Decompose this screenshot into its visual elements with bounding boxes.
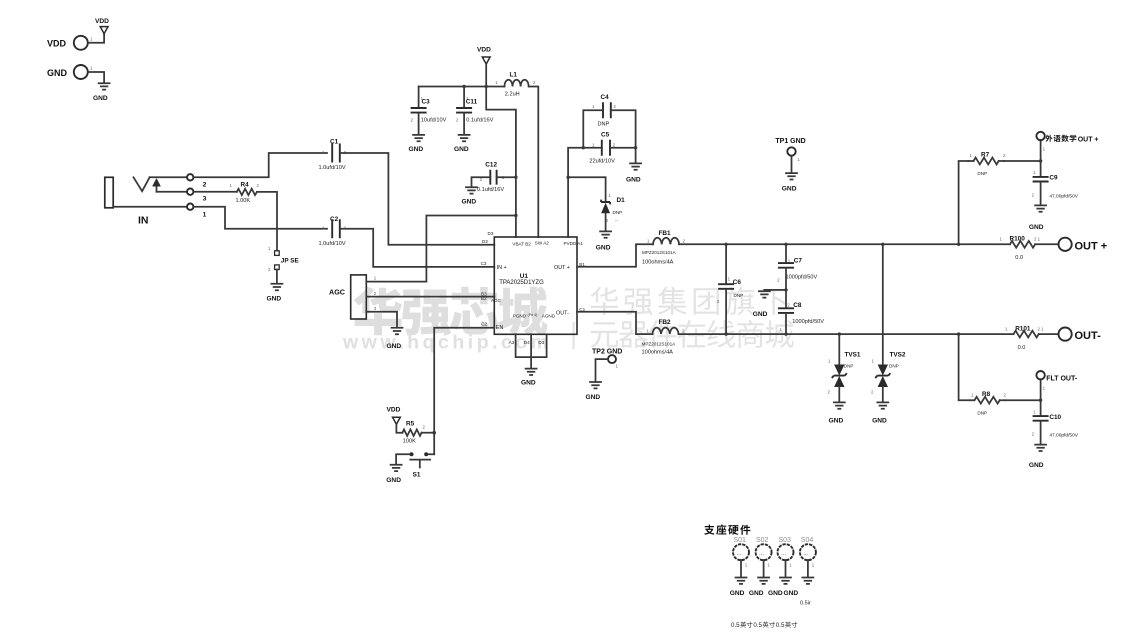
svg-text:D2: D2: [482, 239, 488, 244]
svg-text:C2: C2: [481, 321, 487, 326]
svg-text:S04: S04: [801, 537, 814, 544]
diode D1: [601, 193, 625, 231]
wire rail down to R8 row: [959, 334, 970, 400]
svg-text:47.00pfd/50V: 47.00pfd/50V: [1049, 194, 1078, 200]
svg-text:FLT OUT-: FLT OUT-: [1046, 375, 1078, 382]
wire GND terminal to ground: [88, 72, 104, 83]
svg-text:...: ...: [737, 551, 742, 557]
svg-text:GND: GND: [454, 146, 469, 153]
node C6 bottom: [724, 332, 727, 335]
terminal VDD (J-VDD): [47, 36, 93, 50]
svg-text:B2: B2: [481, 296, 487, 301]
svg-text:DNP: DNP: [889, 364, 899, 369]
power VDD (boost input): [477, 47, 491, 65]
wire R4 to JP SE (crosses C2 row): [257, 192, 277, 250]
node C4/C5 right: [634, 146, 637, 149]
svg-text:PVDD A1: PVDD A1: [564, 241, 584, 246]
connector AGC header: [329, 275, 377, 319]
jack contact pin 3: [187, 189, 193, 195]
ground (TVS2): [872, 402, 888, 424]
ground (TVS1): [829, 402, 845, 424]
svg-text:22ufd/10V: 22ufd/10V: [589, 159, 615, 165]
svg-text:C9: C9: [1049, 175, 1058, 182]
standoff hardware title 支座硬件: [704, 525, 750, 535]
svg-text:D1: D1: [617, 197, 626, 204]
svg-text:PGND: PGND: [513, 314, 527, 319]
switch S1: [410, 452, 435, 478]
svg-text:VDD: VDD: [477, 47, 491, 54]
watermark 元器件在线商城: [591, 320, 794, 348]
svg-text:S1: S1: [413, 472, 421, 479]
svg-text:C11: C11: [466, 99, 478, 106]
wire C4 left leg: [583, 110, 603, 147]
capacitor C12: [477, 161, 505, 193]
svg-text:IN +: IN +: [497, 265, 507, 271]
ground (top-left terminal): [93, 83, 110, 102]
svg-text:2 1: 2 1: [1038, 327, 1045, 332]
svg-text:1.0ufd/10V: 1.0ufd/10V: [319, 241, 346, 247]
svg-text:DNP: DNP: [734, 293, 744, 298]
svg-text:GND: GND: [596, 244, 611, 251]
svg-text:S03: S03: [779, 537, 792, 544]
svg-text:D3: D3: [538, 340, 544, 345]
terminal FLT OUT+: [1036, 132, 1098, 161]
svg-text:C12: C12: [485, 161, 497, 168]
node VBAT/AGC pullup: [514, 214, 517, 217]
svg-text:GND: GND: [386, 477, 401, 484]
wire S1 left to ground: [396, 454, 409, 464]
svg-text:AGC: AGC: [329, 288, 345, 297]
node OUT- rail / R8 branch: [957, 332, 960, 335]
wire VDD rail: [419, 86, 505, 88]
svg-text:C8: C8: [793, 302, 802, 309]
svg-text:0.0: 0.0: [1015, 255, 1023, 261]
ground (C3): [409, 135, 425, 153]
resistor R100: [959, 236, 1059, 262]
wire OUT- to FB2: [577, 312, 652, 334]
svg-text:1.00K: 1.00K: [236, 198, 251, 204]
svg-text:C10: C10: [1049, 414, 1061, 421]
capacitor C5: [589, 132, 615, 165]
svg-text:VDD: VDD: [47, 39, 67, 49]
svg-text:100K: 100K: [403, 439, 416, 445]
wire EN to R5/S1: [434, 328, 494, 455]
svg-text:IN: IN: [138, 215, 149, 227]
svg-text:C3: C3: [422, 99, 431, 106]
power VDD (top-left): [95, 18, 109, 34]
terminal FLT OUT-: [1036, 371, 1077, 400]
wire C1 to chip IN- (net step down): [340, 153, 495, 245]
wire TVS1 stem: [838, 334, 840, 364]
wire R7 to FLT OUT+ node: [1004, 160, 1041, 162]
svg-text:2.2uH: 2.2uH: [505, 91, 520, 97]
node FLT OUT-: [1039, 399, 1042, 402]
svg-text:1000pfd/50V: 1000pfd/50V: [792, 319, 824, 325]
jack detect arrow: [156, 186, 158, 192]
svg-text:0.5: 0.5: [776, 622, 785, 629]
node rail junction C11: [462, 85, 465, 88]
svg-text:A3: A3: [509, 340, 515, 345]
terminal OUT+: [1059, 238, 1108, 253]
watermark 华强集团旗下: [590, 287, 788, 315]
capacitor C10: [1032, 400, 1079, 444]
svg-text:MPZ2012S101A: MPZ2012S101A: [642, 342, 677, 347]
svg-text:GND: GND: [872, 418, 887, 425]
svg-text:GND: GND: [730, 590, 745, 597]
svg-text:GND: GND: [626, 176, 641, 183]
svg-text:TPA2025D1YZG: TPA2025D1YZG: [499, 280, 544, 286]
wire TP1 to ground: [791, 156, 793, 173]
test point TP1 GND: [775, 138, 805, 162]
power VDD (EN pullup): [387, 407, 401, 425]
svg-text:R5: R5: [406, 421, 415, 428]
jack contact pin 1: [187, 204, 193, 210]
svg-text:C7: C7: [794, 258, 803, 265]
svg-text:JP SE: JP SE: [281, 257, 300, 264]
wire TVS2 stem (crosses OUT- rail): [882, 244, 884, 364]
svg-text:D4: D4: [524, 340, 530, 345]
jack switch contact V: [134, 177, 150, 191]
capacitor C1: [319, 139, 347, 172]
svg-text:C4: C4: [601, 94, 610, 101]
wire AGC pin2 to chip: [366, 296, 494, 298]
wire C12 left to ground: [472, 177, 491, 187]
watermark divider: [573, 322, 575, 349]
svg-text:1: 1: [203, 211, 207, 218]
jumper JP SE: [268, 246, 300, 272]
standoff S04: [784, 537, 816, 597]
svg-text:GND: GND: [267, 296, 282, 303]
terminal OUT-: [1059, 328, 1102, 343]
node PVDD / D1 tap: [566, 176, 569, 179]
svg-text:OUT-: OUT-: [1075, 330, 1102, 342]
resistor R101: [959, 325, 1059, 351]
node FLT OUT+: [1039, 159, 1042, 162]
TVS diode TVS1: [828, 351, 861, 402]
svg-text:...: ...: [803, 551, 808, 557]
wire R5 to EN line: [422, 432, 435, 434]
wire AGC pin3 to ground: [366, 312, 397, 328]
node C7/C8 gnd tap: [784, 288, 787, 291]
svg-text:FB1: FB1: [659, 230, 672, 237]
ground (U1): [521, 369, 537, 387]
svg-text:2: 2: [203, 182, 207, 189]
wire FB2 output rail: [679, 333, 959, 335]
wire C4 right leg: [611, 110, 636, 147]
svg-text:VDD: VDD: [95, 18, 109, 25]
TVS diode TVS2: [871, 351, 906, 402]
resistor R8: [970, 391, 1007, 415]
svg-text:FB2: FB2: [659, 319, 672, 326]
svg-text:SW A2: SW A2: [535, 241, 549, 246]
inductor L1: [495, 72, 536, 98]
wire C5 right to ground: [610, 148, 636, 163]
ground (C9): [1029, 205, 1046, 231]
capacitor C9: [1032, 161, 1079, 205]
ground (S1): [386, 465, 401, 485]
chip ground pins A3/D4/D3: [509, 334, 547, 368]
svg-text:DNP: DNP: [977, 171, 987, 176]
wire jack pin2 row: [150, 176, 187, 178]
watermark 华强芯城: [354, 286, 548, 336]
svg-text:OUT +: OUT +: [554, 265, 570, 271]
resistor R7: [968, 152, 1006, 176]
svg-text:AGC: AGC: [491, 298, 502, 303]
wire VDD terminal to VDD symbol: [88, 34, 104, 43]
capacitor C8: [778, 302, 824, 334]
capacitor C3: [411, 87, 447, 135]
svg-text:GND: GND: [753, 311, 768, 318]
svg-text:DNP: DNP: [598, 122, 610, 128]
resistor R4: [230, 182, 260, 204]
wire rail up to R7 row: [959, 161, 969, 244]
wire pin2 to C1 row: [193, 153, 327, 177]
svg-text:TVS2: TVS2: [890, 351, 906, 358]
svg-text:AGND: AGND: [542, 314, 556, 319]
capacitor C4: [592, 94, 617, 127]
svg-text:MPZ2012S101A: MPZ2012S101A: [642, 250, 677, 255]
wire FB1 output rail: [679, 243, 959, 245]
svg-text:TP2 GND: TP2 GND: [592, 349, 622, 356]
ground (JP SE): [267, 284, 283, 303]
wire PVDD to D1: [568, 177, 606, 201]
svg-text:0.5: 0.5: [753, 622, 762, 629]
node OUT+ rail / R7 branch: [957, 243, 960, 246]
svg-text:VDD: VDD: [387, 407, 401, 414]
svg-text:L1: L1: [510, 72, 518, 79]
svg-text:S02: S02: [756, 537, 769, 544]
wire VDD to R5: [396, 424, 402, 432]
node C8 bottom: [784, 332, 787, 335]
wire jack pin3 row: [157, 191, 188, 193]
svg-text:GND: GND: [387, 343, 402, 350]
svg-text:100ohms/4A: 100ohms/4A: [642, 350, 674, 356]
svg-text:GND: GND: [47, 68, 68, 78]
ground (C11): [454, 135, 470, 153]
svg-text:...: ...: [781, 551, 786, 557]
svg-text:D3: D3: [488, 231, 494, 236]
svg-text:GND: GND: [586, 394, 601, 401]
svg-text:GND: GND: [1029, 462, 1044, 469]
ground (C7/C8): [753, 291, 770, 318]
wire jack tip row (pin1): [113, 206, 187, 208]
wire AGC pin1 to VBAT: [366, 216, 516, 282]
op-amp U1 TPA2025D1YZG body: [491, 237, 583, 334]
svg-text:0.5ir: 0.5ir: [800, 601, 811, 607]
svg-text:U1: U1: [520, 273, 529, 280]
svg-text:GND: GND: [782, 186, 797, 193]
wire TP2 to ground: [596, 359, 609, 382]
terminal GND (J-GND): [47, 65, 93, 79]
svg-text:0.0: 0.0: [1018, 345, 1026, 351]
resistor R5: [395, 421, 426, 445]
svg-text:GND: GND: [784, 590, 799, 597]
svg-text:VBAT B2: VBAT B2: [512, 241, 531, 246]
svg-text:GND: GND: [768, 590, 783, 597]
capacitor C6: [717, 244, 743, 334]
wire C7/C8 junction to ground: [764, 289, 786, 292]
svg-text:GND: GND: [749, 590, 764, 597]
ground (C12): [462, 187, 478, 205]
ground (TP2): [586, 382, 602, 401]
node VBAT/C12: [514, 176, 517, 179]
svg-text:0.1ufd/16V: 0.1ufd/16V: [466, 117, 493, 123]
svg-text:R7: R7: [981, 152, 990, 159]
svg-text:GND: GND: [829, 418, 844, 425]
wire C5 left: [583, 147, 602, 149]
svg-text:...: ...: [759, 551, 764, 557]
svg-text:10ufd/10V: 10ufd/10V: [421, 117, 447, 123]
wire PVDD column: [568, 148, 583, 237]
wire JP SE to ground: [276, 270, 278, 284]
svg-text:0.5: 0.5: [731, 622, 740, 629]
svg-text:GND: GND: [409, 146, 424, 153]
svg-text:GND: GND: [521, 379, 536, 386]
capacitor C11: [456, 87, 494, 135]
ground (C10): [1029, 445, 1046, 470]
wire C2 to chip IN+: [340, 229, 495, 267]
svg-text:OUT +: OUT +: [1075, 240, 1108, 252]
svg-text:DNP: DNP: [844, 364, 854, 369]
svg-text:GND: GND: [462, 198, 477, 205]
node C4/C5 left: [582, 146, 585, 149]
wire pin1 to C2 row: [193, 207, 327, 229]
svg-text:C3: C3: [481, 261, 487, 266]
standoff S01: [730, 537, 749, 597]
ferrite bead FB1: [642, 230, 686, 265]
wire L1 to SW pin: [529, 87, 539, 238]
capacitor C2: [319, 216, 347, 247]
svg-text:DNP: DNP: [613, 210, 623, 215]
standoff S02: [749, 537, 772, 597]
svg-text:1000pfd/50V: 1000pfd/50V: [786, 274, 818, 280]
svg-text:DNP: DNP: [977, 410, 987, 415]
audio jack IN body: [105, 177, 149, 226]
svg-text:R8: R8: [982, 391, 991, 398]
standoff S03: [768, 537, 794, 597]
node C6 top: [724, 243, 727, 246]
svg-text:GND: GND: [1029, 224, 1044, 231]
svg-text:0.1ufd/16V: 0.1ufd/16V: [477, 187, 504, 193]
capacitor C7: [777, 244, 817, 307]
node rail junction VDD: [485, 85, 488, 88]
node TVS1 tap: [838, 332, 841, 335]
ground (D1): [596, 231, 611, 251]
svg-text:47.00pfd/50V: 47.00pfd/50V: [1049, 433, 1078, 439]
test point TP2 GND: [592, 349, 622, 369]
wire R8 to FLT OUT- node: [1005, 399, 1041, 401]
svg-text:TP1 GND: TP1 GND: [775, 138, 805, 145]
wire OUT+ to FB1: [577, 244, 653, 266]
svg-text:TVS1: TVS1: [845, 351, 861, 358]
wire pin3 to R4: [193, 191, 236, 193]
svg-text:2 1: 2 1: [1034, 237, 1041, 242]
svg-text:3: 3: [203, 195, 207, 202]
svg-text:C5: C5: [601, 132, 610, 139]
node EN/R5: [432, 431, 436, 435]
svg-text:100ohms/4A: 100ohms/4A: [642, 259, 674, 265]
wire VDD down across rail to VBAT step: [486, 64, 516, 237]
svg-text:OUT-: OUT-: [556, 311, 569, 317]
node TVS2 tap: [881, 243, 884, 246]
svg-text:1.0ufd/10V: 1.0ufd/10V: [319, 165, 346, 171]
jack contact pin 2: [187, 174, 193, 180]
ground (AGC): [387, 328, 403, 350]
wire C12 right to VBAT line: [497, 176, 516, 178]
svg-text:(P# 4): (P# 4): [528, 313, 538, 317]
ground (TP1): [782, 173, 797, 193]
svg-text:OUT +: OUT +: [1078, 136, 1099, 143]
svg-text:S01: S01: [734, 537, 747, 544]
svg-text:EN: EN: [496, 325, 504, 331]
ferrite bead FB2: [642, 319, 686, 355]
ground (C4/C5): [626, 163, 641, 183]
node C7 top: [784, 243, 787, 246]
svg-text:GND: GND: [93, 95, 108, 102]
